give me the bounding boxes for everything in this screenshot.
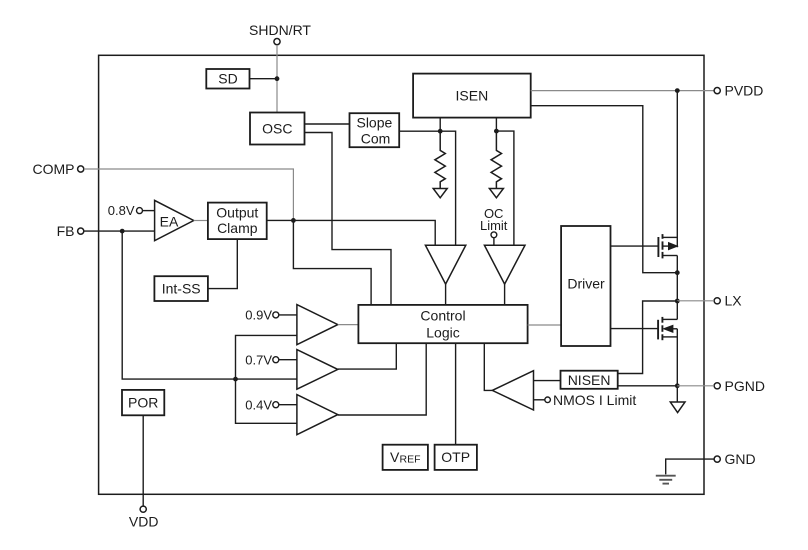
OC Limit terminal [491, 232, 497, 238]
wire Control Logic to NMOS comparator [484, 343, 492, 390]
wire Control Logic to Driver [528, 324, 562, 326]
svg-text:SD: SD [218, 71, 237, 87]
pin PGND terminal [714, 383, 720, 389]
svg-text:Control: Control [420, 308, 465, 324]
wire Output Clamp to Int-SS [208, 239, 237, 289]
node Output Clamp / COMP junction [291, 218, 296, 223]
ground arrow PGND [670, 402, 685, 413]
svg-text:NMOS I Limit: NMOS I Limit [553, 392, 636, 408]
wire 0.7V to comparator [279, 359, 297, 361]
wire SHDN/RT to OSC [276, 45, 278, 113]
wire comparator B to Control Logic [504, 284, 506, 305]
wire OSC to Slope Com [305, 123, 350, 125]
svg-text:GND: GND [725, 451, 756, 467]
resistor R1 [433, 131, 447, 198]
wire M2 source to PGND node [676, 329, 678, 402]
wire PGND node to pin [677, 385, 714, 387]
wire Driver to M2 gate [611, 328, 659, 330]
svg-text:NISEN: NISEN [568, 372, 611, 388]
wire Output Clamp to comparator A minus input [267, 220, 436, 245]
wire LX node to NISEN [618, 301, 678, 374]
wire ISEN right sense drop [495, 118, 497, 132]
wire comparator 0.9V to Control Logic [338, 324, 359, 326]
svg-text:0.8V: 0.8V [108, 203, 135, 218]
wire M1 source to LX node [676, 256, 678, 302]
transistor M2 (low side) [658, 317, 677, 340]
comparator 0.4V [297, 395, 338, 435]
wire OSC to Control Logic [305, 133, 392, 305]
pin FB terminal [78, 228, 84, 234]
comparator 0.7V [297, 350, 338, 390]
wire 0.8V to EA [143, 210, 155, 212]
svg-text:FB: FB [57, 223, 75, 239]
wire POR to VDD [142, 415, 144, 506]
wire COMP to output-clamp node [84, 169, 294, 220]
wire LX node to pin [677, 300, 714, 302]
wire ISEN left sense drop [439, 118, 441, 132]
node resistor R1 top junction [438, 129, 443, 134]
svg-text:POR: POR [128, 395, 158, 411]
svg-text:VDD: VDD [129, 514, 159, 530]
svg-text:ISEN: ISEN [456, 88, 489, 104]
svg-text:Driver: Driver [567, 276, 605, 292]
comparator NMOS I limit [492, 371, 533, 410]
wire NISEN to PGND node [618, 385, 678, 387]
node ladder junction [233, 377, 238, 382]
node PVDD junction [675, 88, 680, 93]
svg-text:Int-SS: Int-SS [162, 281, 201, 297]
node FB junction [120, 229, 125, 234]
svg-text:Slope: Slope [356, 114, 392, 130]
svg-text:OTP: OTP [441, 449, 470, 465]
svg-text:0.9V: 0.9V [245, 308, 272, 323]
svg-text:V: V [390, 449, 400, 465]
wire ladder rail [236, 335, 297, 423]
svg-text:PVDD: PVDD [725, 83, 764, 99]
chip boundary [99, 55, 704, 494]
comparator 0.9V [297, 305, 338, 345]
svg-text:PGND: PGND [725, 378, 765, 394]
resistor R2 [489, 131, 503, 198]
block OTP [435, 445, 477, 470]
wire ISEN to LX node [531, 106, 678, 273]
0.7V terminal [273, 357, 279, 363]
block VREF [383, 445, 428, 470]
svg-text:Output: Output [216, 205, 258, 221]
node SD junction [275, 76, 280, 81]
svg-text:Com: Com [361, 131, 391, 147]
block Control Logic [358, 305, 527, 343]
wire OC Limit to comparator B [493, 238, 495, 245]
wire LX node to M2 drain [676, 301, 678, 319]
pin LX terminal [714, 298, 720, 304]
node PGND junction [675, 383, 680, 388]
wire FB to comparator ladder [122, 231, 297, 379]
svg-text:Clamp: Clamp [217, 220, 258, 236]
block ISEN [413, 74, 531, 118]
wire NMOS I Limit stub [534, 399, 545, 401]
wire 0.9V to comparator [279, 314, 297, 316]
pin SHDN/RT terminal [274, 39, 280, 45]
wire 0.4V to comparator [279, 404, 297, 406]
NMOS I Limit terminal [545, 397, 551, 403]
node ISEN tap junction [675, 270, 680, 275]
svg-text:Limit: Limit [480, 218, 508, 233]
pin PVDD terminal [714, 88, 720, 94]
block NISEN [561, 371, 618, 389]
svg-text:SHDN/RT: SHDN/RT [249, 22, 311, 38]
node LX junction [675, 299, 680, 304]
wire Driver to M1 gate [611, 245, 659, 247]
svg-text:OSC: OSC [262, 121, 292, 137]
block Driver [561, 226, 610, 346]
block Int-SS [154, 276, 208, 301]
svg-text:0.7V: 0.7V [245, 352, 272, 367]
block Output Clamp [208, 203, 267, 240]
svg-text:COMP: COMP [33, 161, 75, 177]
wire comparator 0.7V to Control Logic [338, 343, 397, 369]
block Slope Com [350, 113, 400, 147]
block SD [206, 69, 249, 89]
svg-text:REF: REF [400, 454, 421, 466]
svg-text:EA: EA [160, 213, 179, 229]
ground symbol [656, 476, 676, 484]
comparator B (OC limit) [484, 245, 525, 284]
wire FB to EA [84, 230, 155, 232]
0.8V terminal [137, 208, 143, 214]
comparator A (current sense) [425, 245, 465, 284]
node resistor R2 top junction [494, 129, 499, 134]
transistor M1 (high side) [658, 234, 677, 258]
wire output-clamp node to Control Logic [293, 220, 371, 305]
wire NISEN to NMOS comparator [534, 380, 561, 382]
block OSC [250, 113, 305, 145]
pin GND terminal [714, 456, 720, 462]
wire R2 junction to comparator B plus input [496, 131, 514, 245]
svg-text:Logic: Logic [426, 324, 459, 340]
wire Slope Com to R1 junction [399, 130, 440, 132]
wire R1 junction to comparator A plus input [440, 131, 455, 245]
wire ISEN to PVDD [531, 90, 714, 92]
wire GND pin to ground [666, 459, 714, 474]
op-amp EA [155, 200, 194, 240]
wire PVDD to M1 drain [676, 91, 678, 248]
svg-text:0.4V: 0.4V [245, 397, 272, 412]
0.9V terminal [273, 312, 279, 318]
svg-text:LX: LX [725, 293, 743, 309]
wire Control Logic to OTP [455, 343, 457, 445]
pin VDD terminal [140, 506, 146, 512]
wire comparator 0.4V to Control Logic [338, 343, 426, 415]
wire comparator A to Control Logic [445, 284, 447, 305]
block POR [122, 390, 164, 415]
pin COMP terminal [78, 166, 84, 172]
wire EA to Output Clamp [194, 220, 208, 222]
wire SD to SHDN/RT net [250, 78, 278, 80]
0.4V terminal [273, 402, 279, 408]
